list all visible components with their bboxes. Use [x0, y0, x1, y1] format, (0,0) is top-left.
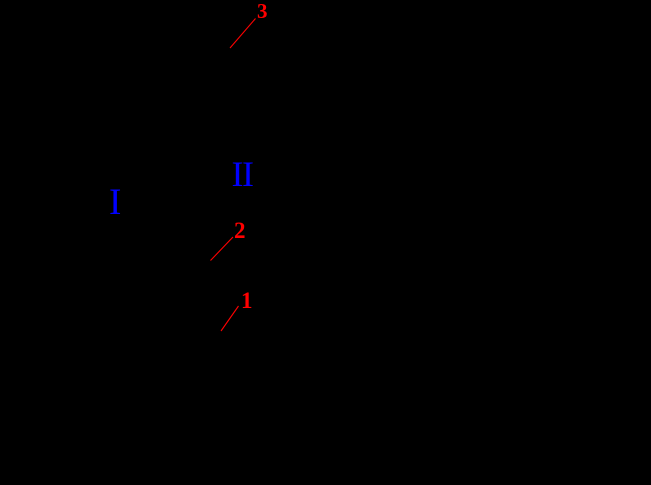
label I: [109, 184, 121, 221]
leader line to curve 1: [221, 306, 239, 331]
label 1: [241, 289, 253, 312]
leader line to curve 3: [230, 19, 256, 49]
label II: [232, 156, 253, 192]
label 3: [257, 1, 268, 22]
label 2: [234, 219, 246, 242]
leader line to curve 2: [211, 237, 234, 261]
